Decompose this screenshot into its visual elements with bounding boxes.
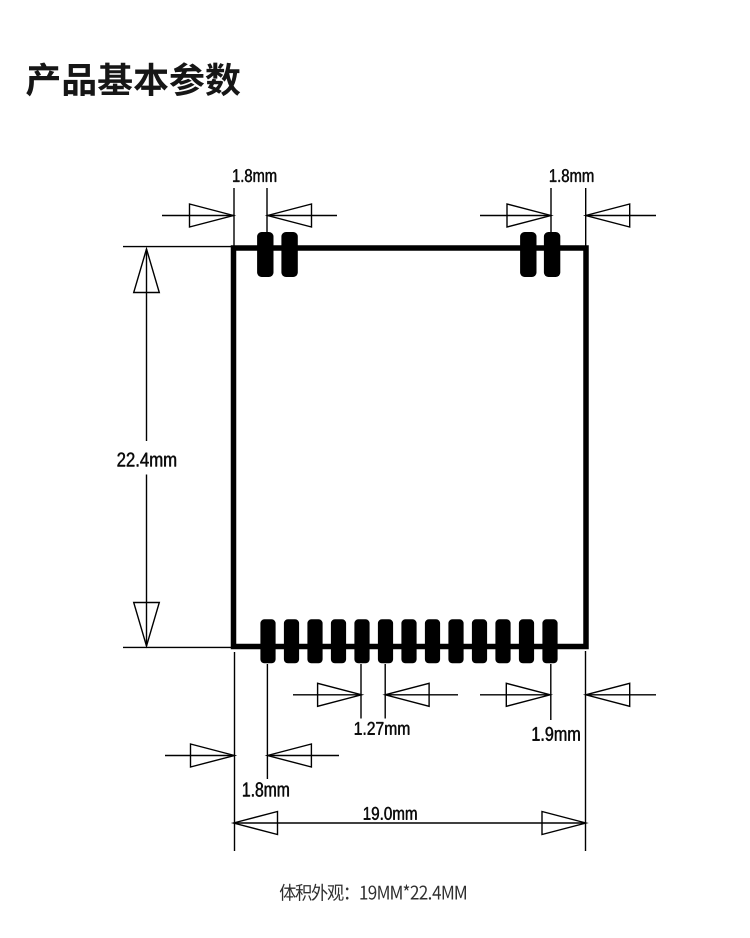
bottom pad 7	[401, 619, 416, 663]
top pad 1	[257, 232, 273, 277]
extension line: module bottom edge (left dim)	[123, 646, 231, 648]
arrowhead: 1.27mm pointing right	[318, 683, 362, 706]
arrowhead: 1.9mm pointing left	[586, 683, 630, 706]
arrowhead: 1.8mm bottom pointing right	[191, 744, 235, 767]
label: 1.8mm top-left	[233, 169, 276, 182]
dim line: 1.8mm top-left outer	[162, 215, 234, 217]
dim line: 22.4mm upper segment	[146, 249, 148, 441]
arrowhead: 1.8mm bottom pointing left	[267, 744, 311, 767]
extension line: bottom pad 6 center (1.27mm dim)	[384, 664, 386, 719]
bottom pad 8	[425, 619, 440, 663]
bottom pad 11	[495, 619, 510, 663]
bottom pad 2	[284, 619, 299, 663]
bottom pad 3	[307, 619, 322, 663]
extension line: bottom pad 5 center (1.27mm dim)	[360, 664, 362, 719]
top pad 4	[544, 232, 560, 277]
dim line: 1.8mm top-left inner	[268, 215, 338, 217]
arrowhead: 19.0mm pointing right	[542, 812, 586, 835]
arrowhead: 1.27mm pointing left	[385, 683, 429, 706]
top pad 2	[281, 232, 297, 277]
dim line: 1.8mm top-right outer	[586, 215, 656, 217]
dim line: 19.0mm	[234, 822, 587, 824]
bottom pad 9	[448, 619, 463, 663]
extension line: module right edge (top dim)	[585, 188, 587, 246]
dim line: 1.27mm left lead	[293, 694, 362, 696]
module outline rectangle 19.0mm x 22.4mm	[234, 248, 587, 647]
extension line: module left edge (bottom dims)	[234, 652, 236, 851]
arrowhead: 1.8mm top-right pointing left	[586, 204, 630, 227]
label: 1.8mm top-right	[550, 169, 593, 182]
label: 1.9mm	[533, 727, 580, 741]
extension line: module top edge (left dim)	[123, 246, 231, 248]
label: 22.4mm	[118, 453, 177, 467]
arrowhead: 1.8mm top-right pointing right	[507, 204, 551, 227]
top pad 3	[520, 232, 536, 277]
bottom pad 1	[260, 619, 275, 663]
bottom pad 12	[519, 619, 534, 663]
bottom pad 6	[378, 619, 393, 663]
dim line: 1.8mm bottom left lead	[165, 755, 235, 757]
extension line: top-right pad center (top dim)	[550, 188, 552, 233]
arrowhead: 19.0mm pointing left	[234, 812, 278, 835]
arrowhead: 1.9mm pointing right	[506, 683, 550, 706]
dim line: 1.8mm top-right inner	[480, 215, 551, 217]
bottom pad 4	[331, 619, 346, 663]
title: 产品基本参数	[26, 62, 240, 96]
label: 19.0mm	[364, 807, 417, 820]
extension line: module right edge (bottom dims)	[585, 651, 587, 851]
arrowhead: 1.8mm top-left pointing left	[268, 204, 312, 227]
dim line: 22.4mm lower segment	[146, 475, 148, 647]
arrowhead: 1.8mm top-left pointing right	[190, 204, 234, 227]
bottom pad 5	[354, 619, 369, 663]
dim line: 1.9mm left lead	[480, 694, 550, 696]
bottom pad 13	[542, 619, 557, 663]
arrowhead: 22.4mm pointing down	[134, 603, 160, 647]
extension line: top-left pad center (top dim)	[266, 188, 268, 233]
caption: 体积外观：19MM*22.4MM	[280, 884, 466, 901]
extension line: module left edge (top dim)	[233, 188, 235, 246]
dim line: 1.9mm right lead	[586, 694, 656, 696]
dim line: 1.8mm bottom right lead	[267, 755, 339, 757]
dim line: 1.27mm right lead	[385, 694, 458, 696]
label: 1.8mm bottom	[243, 782, 289, 796]
label: 1.27mm	[355, 722, 409, 735]
bottom pad 10	[472, 619, 487, 663]
arrowhead: 22.4mm pointing up	[134, 249, 160, 293]
extension line: bottom pad 1 center (1.8mm dim)	[266, 664, 268, 779]
extension line: bottom pad 13 center (1.9mm dim)	[550, 664, 552, 720]
